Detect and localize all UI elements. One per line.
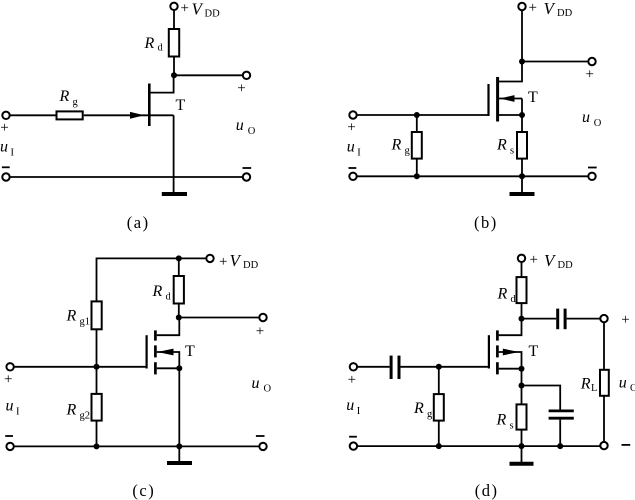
transistor T bulk arrow (c): [157, 352, 180, 368]
label + output (b): [586, 67, 594, 83]
label + input (b): [347, 120, 355, 136]
svg-text:(c): (c): [132, 481, 155, 500]
label T (b): [528, 89, 538, 106]
svg-text:V: V: [544, 251, 557, 270]
label +VDD (a): [181, 0, 221, 20]
svg-text:u: u: [346, 397, 354, 414]
wire top rail with left branch (c): [97, 258, 207, 366]
junction Rg2 rail (c): [94, 443, 100, 449]
resistor RL (d): [600, 370, 609, 396]
junction drain node (c): [176, 315, 182, 321]
resistor Rd (a): [169, 29, 179, 57]
junction drain node (d): [519, 316, 525, 322]
wire Rg2 to rail (c): [96, 421, 98, 447]
svg-text:u: u: [582, 109, 590, 126]
capacitor output plate left (d): [556, 309, 559, 330]
wire gate junction to gate bar (c): [97, 366, 147, 368]
wire Rd to drain node (a): [173, 57, 175, 76]
terminal input plus (b): [349, 111, 356, 118]
wire input to Rg (a): [10, 114, 56, 116]
label + input (c): [4, 372, 12, 388]
svg-text:R: R: [497, 286, 508, 303]
junction source rail (c): [176, 443, 182, 449]
wire output terminal to RL (d): [603, 322, 605, 370]
svg-text:(d): (d): [475, 481, 499, 500]
transistor T channel segment drain (d): [496, 330, 499, 340]
label T (c): [185, 343, 195, 360]
wire input cap to gate junction (d): [401, 366, 439, 368]
junction gate node (d): [436, 364, 442, 370]
label minus output (d): [622, 444, 631, 446]
svg-text:g: g: [427, 409, 433, 420]
terminal input minus (a): [2, 173, 9, 180]
wire gate node to Rg (d): [438, 367, 440, 394]
svg-text:O: O: [264, 384, 272, 395]
transistor T channel segment middle (c): [154, 345, 157, 357]
junction top rail Rd (c): [176, 255, 182, 261]
label +VDD (d): [530, 251, 574, 271]
wire source to ground (a): [173, 115, 175, 194]
label T (a): [176, 97, 186, 114]
label RL (d): [580, 375, 598, 394]
svg-text:R: R: [144, 35, 155, 52]
svg-text:d: d: [158, 43, 164, 54]
svg-text:DD: DD: [243, 260, 259, 271]
bottom rail (c): [14, 445, 260, 447]
wire bypass node to cap top (d): [522, 386, 561, 410]
junction drain node (b): [519, 59, 525, 65]
svg-text:+: +: [181, 1, 189, 17]
svg-text:+: +: [256, 323, 264, 339]
wire Rs to rail (d): [521, 430, 523, 447]
terminal +VDD (b): [518, 3, 525, 10]
label Rg1 (c): [66, 307, 91, 327]
svg-text:R: R: [413, 400, 424, 417]
bottom rail (a): [10, 176, 243, 178]
transistor T gate bar (c): [146, 335, 148, 368]
svg-text:DD: DD: [205, 9, 221, 20]
label uO (b): [582, 109, 602, 129]
capacitor output plate right (d): [564, 309, 567, 330]
bottom rail (d): [357, 445, 600, 447]
svg-text:g1: g1: [80, 316, 91, 327]
label minus output (a): [243, 167, 252, 169]
junction source node (b): [519, 112, 525, 118]
label + output (d): [621, 312, 629, 328]
transistor T channel segment drain (c): [154, 330, 157, 340]
arrowhead gate (a): [130, 112, 144, 119]
svg-text:(a): (a): [127, 213, 150, 232]
junction Rs rail (b): [519, 173, 525, 179]
wire drain node to output cap (d): [522, 318, 557, 320]
resistor Rg (a): [57, 111, 83, 119]
wire Rs to rail (b): [521, 159, 523, 177]
arrowhead bulk (d): [503, 349, 519, 356]
transistor T bulk arrow (d): [499, 352, 522, 369]
label (c): [132, 481, 155, 500]
transistor T source stub (a): [150, 114, 173, 116]
terminal output minus (d): [600, 442, 607, 449]
label +VDD (b): [529, 0, 573, 19]
label minus input (d): [349, 436, 357, 438]
transistor T drain stub (d): [499, 319, 522, 336]
capacitor bypass plate top (d): [549, 409, 574, 412]
svg-text:+: +: [347, 120, 355, 136]
svg-text:V: V: [230, 251, 243, 270]
svg-text:R: R: [66, 402, 77, 419]
wire drain node to output terminal (a): [174, 74, 243, 76]
label (b): [474, 213, 498, 232]
svg-text:R: R: [152, 283, 163, 300]
wire rail to ground (b): [521, 176, 523, 194]
svg-text:T: T: [176, 97, 186, 114]
wire gate node to Rg (b): [416, 115, 418, 132]
arrowhead bulk (c): [157, 349, 173, 356]
terminal output plus (c): [259, 314, 266, 321]
svg-text:T: T: [529, 343, 539, 360]
transistor T gate lead with arrow (a): [84, 114, 149, 116]
wire input to gate junction (b): [357, 114, 417, 116]
wire drain node to output terminal (b): [522, 61, 588, 63]
svg-text:u: u: [6, 398, 14, 415]
terminal input minus (b): [349, 173, 356, 180]
transistor T channel bar (b): [496, 77, 499, 122]
label + output (c): [256, 323, 264, 339]
junction drain node (a): [171, 72, 177, 78]
terminal input minus (d): [350, 442, 357, 449]
bottom rail (b): [357, 175, 589, 177]
svg-text:s: s: [510, 146, 514, 157]
terminal output minus (a): [243, 173, 250, 180]
junction bypass node (d): [519, 383, 525, 389]
terminal input plus (c): [6, 363, 13, 370]
label uI (b): [347, 138, 362, 158]
transistor T source stub (b): [499, 114, 522, 116]
svg-text:L: L: [591, 383, 597, 394]
svg-text:R: R: [580, 375, 591, 392]
svg-text:R: R: [66, 307, 77, 324]
wire source to bypass junction (d): [521, 369, 523, 386]
wire Rd to drain node (d): [521, 303, 523, 319]
junction Rg rail (b): [414, 173, 420, 179]
wire input to cap (d): [357, 366, 389, 368]
wire Rd to drain node (c): [178, 304, 180, 318]
svg-text:O: O: [630, 383, 635, 394]
svg-text:+: +: [237, 80, 245, 96]
label Rs (b): [496, 137, 514, 157]
capacitor bypass plate bottom (d): [549, 417, 574, 420]
terminal output plus (a): [243, 72, 250, 79]
svg-text:R: R: [59, 88, 70, 105]
label T (d): [529, 343, 539, 360]
wire VDD to Rd (a): [173, 10, 175, 29]
ground bar (d): [510, 462, 534, 466]
label + output (a): [237, 80, 245, 96]
svg-text:+: +: [219, 254, 227, 270]
label (a): [127, 213, 150, 232]
wire source to Rs (b): [521, 115, 523, 132]
terminal output plus (d): [600, 315, 607, 322]
svg-text:R: R: [496, 411, 507, 428]
resistor Rd (c): [174, 276, 184, 304]
capacitor input plate right (d): [398, 356, 401, 379]
wire Rg to rail (b): [416, 159, 418, 177]
junction Rg rail (d): [436, 443, 442, 449]
ground bar (c): [167, 461, 192, 465]
svg-text:s: s: [510, 420, 514, 431]
label Rd (c): [152, 283, 172, 303]
transistor T gate bar (b): [487, 84, 489, 116]
label minus output (c): [256, 435, 265, 437]
transistor T source stub (d): [499, 368, 522, 370]
wire rail to ground (d): [521, 446, 523, 464]
svg-text:u: u: [236, 117, 244, 134]
svg-text:O: O: [248, 126, 256, 137]
svg-text:DD: DD: [558, 260, 574, 271]
junction Rs rail (d): [519, 443, 525, 449]
wire VDD to Rd (d): [521, 262, 523, 277]
svg-text:+: +: [621, 312, 629, 328]
svg-text:O: O: [594, 118, 602, 129]
label minus output (b): [588, 167, 597, 169]
svg-text:+: +: [0, 120, 8, 136]
transistor T channel segment source (c): [154, 362, 157, 374]
svg-text:u: u: [619, 375, 627, 392]
terminal +VDD (a): [170, 3, 177, 10]
resistor Rs (d): [517, 404, 527, 429]
transistor T bulk arrow (b): [499, 98, 522, 100]
wire gate junction to gate bar (b): [417, 114, 489, 116]
transistor T drain stub (c): [157, 318, 180, 336]
label minus input (b): [349, 167, 357, 169]
label uI (c): [6, 398, 21, 418]
svg-text:+: +: [586, 67, 594, 83]
svg-text:u: u: [347, 138, 355, 155]
svg-text:u: u: [0, 139, 8, 156]
terminal +VDD (c): [206, 255, 213, 262]
svg-text:I: I: [357, 406, 361, 417]
transistor T channel segment source (d): [496, 362, 499, 374]
resistor Rg1 (c): [92, 301, 102, 329]
wire bypass cap to rail (d): [559, 420, 561, 447]
resistor Rg2 (c): [92, 394, 102, 421]
wire VDD to drain node (b): [521, 10, 523, 61]
svg-text:V: V: [544, 0, 557, 18]
label Rg (b): [391, 137, 411, 157]
capacitor input plate left (d): [390, 356, 393, 379]
arrowhead bulk (b): [500, 95, 515, 102]
label Rd (d): [497, 286, 517, 306]
label Rg2 (c): [66, 402, 91, 422]
svg-text:g: g: [405, 146, 411, 157]
svg-text:g: g: [73, 97, 79, 108]
wire output cap to terminal (d): [567, 318, 601, 320]
svg-text:+: +: [530, 252, 538, 268]
junction source node (d): [519, 366, 525, 372]
junction bypass rail (d): [557, 443, 563, 449]
svg-text:d: d: [166, 292, 172, 303]
terminal +VDD (d): [518, 255, 525, 262]
svg-text:R: R: [496, 137, 507, 154]
transistor T channel segment middle (d): [496, 345, 499, 357]
svg-text:+: +: [4, 372, 12, 388]
transistor T drain stub (a): [150, 78, 173, 93]
terminal output minus (c): [259, 443, 266, 450]
label Rg (a): [59, 88, 79, 108]
junction source node (c): [176, 365, 182, 371]
label uO (d): [619, 375, 635, 394]
terminal output minus (b): [588, 173, 595, 180]
wire top rail to Rd (c): [178, 258, 180, 276]
transistor T drain stub (b): [499, 62, 522, 82]
terminal input plus (a): [2, 112, 9, 119]
terminal output plus (b): [588, 58, 595, 65]
wire gate node to Rg2 (c): [96, 367, 98, 394]
label minus input (c): [5, 435, 13, 437]
svg-text:(b): (b): [474, 213, 498, 232]
svg-text:+: +: [529, 0, 537, 16]
label + input (a): [0, 120, 8, 136]
svg-text:I: I: [16, 407, 20, 418]
junction gate node (b): [414, 112, 420, 118]
label uI (d): [346, 397, 361, 417]
label (d): [475, 481, 499, 500]
wire drain node to output terminal (c): [179, 317, 260, 319]
label uO (a): [236, 117, 256, 137]
transistor T gate bar (d): [488, 335, 490, 368]
ground bar (a): [162, 192, 187, 196]
svg-text:d: d: [511, 294, 517, 305]
svg-text:I: I: [357, 147, 361, 158]
transistor T channel bar (a): [148, 84, 151, 127]
label Rd (a): [144, 35, 164, 54]
label Rs (d): [496, 411, 514, 431]
resistor Rg (b): [412, 132, 422, 159]
junction gate node (c): [94, 364, 100, 370]
resistor Rg (d): [434, 394, 444, 421]
wire source to rail and ground (c): [178, 368, 180, 463]
label minus input (a): [2, 166, 10, 168]
svg-text:g2: g2: [80, 411, 91, 422]
ground bar (b): [510, 192, 535, 196]
svg-text:+: +: [348, 372, 356, 388]
wire gate junction to gate bar (d): [439, 366, 489, 368]
terminal input plus (d): [350, 363, 357, 370]
wire RL to bottom terminal (d): [603, 396, 605, 442]
svg-text:R: R: [391, 137, 402, 154]
svg-text:DD: DD: [557, 8, 573, 19]
transistor T source stub (c): [157, 367, 180, 369]
label uO (c): [252, 375, 272, 395]
wire bulk to source (b): [521, 99, 523, 116]
wire input to gate junction (c): [14, 366, 97, 368]
wire source to Rs (d): [521, 386, 523, 405]
svg-text:I: I: [11, 148, 15, 159]
resistor Rd (d): [517, 277, 527, 303]
svg-text:V: V: [192, 0, 205, 19]
svg-text:T: T: [185, 343, 195, 360]
label uI (a): [0, 139, 15, 159]
terminal input minus (c): [6, 443, 13, 450]
svg-text:T: T: [528, 89, 538, 106]
label + input (d): [348, 372, 356, 388]
svg-text:u: u: [252, 375, 260, 392]
resistor Rs (b): [517, 132, 527, 159]
wire Rg to rail (d): [438, 421, 440, 447]
label Rg (d): [413, 400, 433, 420]
label +VDD (c): [219, 251, 259, 271]
